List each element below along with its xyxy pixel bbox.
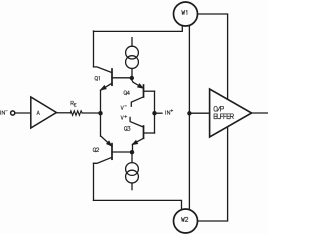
label W1	[182, 10, 187, 14]
label IN-	[0, 111, 4, 115]
wire node to O/P buffer	[189, 112, 209, 114]
wire W2 to buffer bottom	[198, 127, 228, 221]
wire output	[252, 112, 268, 114]
current source I1	[126, 38, 139, 77]
wire W1 to buffer top	[198, 14, 228, 99]
wire emitter bus vertical	[100, 90, 102, 136]
wire bottom rail	[94, 200, 182, 209]
node IN+	[152, 111, 156, 115]
wire amp A to RE	[56, 112, 70, 114]
wire W1 output vertical	[188, 26, 190, 210]
node Q2 base	[130, 150, 134, 154]
wire top rail	[94, 26, 183, 32]
label V+	[121, 116, 124, 120]
label O/P	[214, 106, 224, 111]
wire Q2 collector to bottom rail	[93, 163, 95, 200]
label IN+	[166, 111, 170, 115]
label Q4	[124, 91, 130, 95]
op-amp A	[31, 97, 57, 128]
label Q2	[93, 148, 99, 152]
current source I2	[126, 154, 139, 189]
transistor Q4	[131, 80, 154, 106]
node Q1 base	[130, 76, 134, 80]
label BUFFER	[214, 114, 233, 119]
transistor Q3	[130, 117, 154, 150]
wire IN- to amp A	[15, 112, 31, 114]
label W2	[182, 217, 188, 221]
resistor RE	[70, 111, 82, 116]
label A	[37, 111, 40, 115]
node IN- terminal	[11, 111, 15, 115]
label RE	[71, 101, 74, 105]
wire IN+ bus	[154, 91, 156, 133]
transistor Q1	[94, 67, 132, 90]
label V-	[121, 106, 124, 110]
node RE/emitter junction	[98, 111, 102, 115]
label Q1	[95, 76, 99, 80]
transistor Q2	[94, 136, 133, 163]
node compensation	[187, 111, 191, 115]
wire Q1 collector to top rail	[93, 31, 95, 67]
current mirror W1	[174, 2, 198, 26]
op-amp U1 O/P buffer	[210, 89, 252, 137]
label Q3	[124, 127, 130, 131]
wire RE to node	[82, 112, 100, 114]
current mirror W2	[174, 209, 198, 233]
wire IN+ stub	[155, 112, 163, 114]
